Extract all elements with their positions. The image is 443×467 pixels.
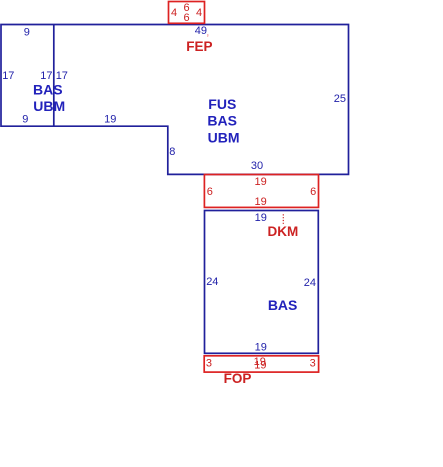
node mid red box (DKM annex) xyxy=(204,175,318,208)
wire: interior divider line xyxy=(53,25,55,127)
svg-text:BAS: BAS xyxy=(33,82,63,98)
svg-text:6: 6 xyxy=(310,186,316,198)
svg-text:24: 24 xyxy=(304,277,316,289)
svg-text:4: 4 xyxy=(171,7,177,19)
svg-text:19: 19 xyxy=(104,113,116,125)
svg-text:BAS: BAS xyxy=(207,113,237,129)
svg-text:6: 6 xyxy=(184,12,190,24)
svg-text:49: 49 xyxy=(195,25,207,37)
svg-text:3: 3 xyxy=(206,357,212,369)
node top red box (FEP annex) xyxy=(169,2,205,24)
svg-text:9: 9 xyxy=(24,27,30,39)
svg-text:17: 17 xyxy=(40,70,52,82)
svg-text:FOP: FOP xyxy=(224,371,252,386)
svg-text:19: 19 xyxy=(255,342,267,354)
svg-text:24: 24 xyxy=(206,276,218,288)
svg-text:19: 19 xyxy=(254,196,266,208)
svg-text:FEP: FEP xyxy=(186,39,212,54)
svg-text:30: 30 xyxy=(251,160,263,172)
svg-text:6: 6 xyxy=(207,186,213,198)
svg-text:FUS: FUS xyxy=(208,96,236,112)
node lower blue box (BAS) xyxy=(205,211,319,354)
svg-text:4: 4 xyxy=(196,7,202,19)
svg-text:9: 9 xyxy=(22,113,28,125)
svg-text:8: 8 xyxy=(169,146,175,158)
svg-text:UBM: UBM xyxy=(208,129,240,145)
svg-text:3: 3 xyxy=(310,357,316,369)
svg-text:19: 19 xyxy=(254,360,266,372)
wire: blue outer building outline xyxy=(1,25,349,175)
svg-text:17: 17 xyxy=(2,70,14,82)
svg-text:UBM: UBM xyxy=(33,98,65,114)
svg-text:,: , xyxy=(206,27,209,39)
svg-text:17: 17 xyxy=(56,70,68,82)
svg-text:DKM: DKM xyxy=(268,224,299,239)
svg-text:BAS: BAS xyxy=(268,297,298,313)
wire: red dotted leader line above DKM xyxy=(282,214,284,224)
node bottom red box (FOP annex) xyxy=(204,356,318,372)
svg-text:19: 19 xyxy=(255,212,267,224)
svg-text:25: 25 xyxy=(334,93,346,105)
svg-text:19: 19 xyxy=(254,176,266,188)
